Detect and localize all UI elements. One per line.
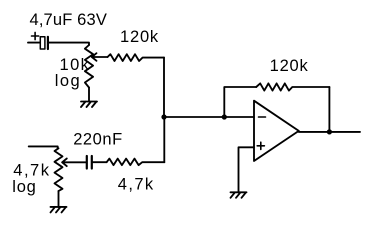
potentiometer P2 4,7k log (vertical zigzag) (55, 148, 63, 191)
plus polarity mark (32, 32, 39, 39)
ground (below P2) (51, 207, 67, 213)
potentiometer P1 10k log (vertical zigzag) (85, 45, 93, 88)
input lead (bottom channel) (29, 146, 58, 148)
wire non-inverting input to ground (239, 147, 255, 192)
ground (at U1 + input) (231, 192, 247, 198)
U1 non-inverting input mark + (257, 142, 264, 149)
resistor R2 4,7k (horizontal) (107, 159, 165, 166)
ground (below P1) (81, 102, 97, 108)
capacitor C1 (4,7uF 63V electrolytic, boxed + plate) (40, 37, 45, 49)
wire P2 bottom to ground (58, 191, 60, 207)
wire R1 to node A (163, 58, 165, 117)
resistor R3 120k (feedback) (256, 83, 329, 90)
wire P1 bottom to ground (88, 88, 90, 102)
P2 wiper arrow (62, 159, 86, 167)
wire R2 up to node A (163, 117, 165, 162)
svg-text:120k: 120k (270, 57, 309, 75)
op-amp U1 triangle (254, 101, 299, 161)
P1 wiper arrow (92, 53, 108, 61)
node C output junction dot (327, 129, 332, 134)
feedback wire down to output node C (328, 87, 330, 132)
input lead (top channel) (28, 42, 40, 44)
svg-text:4,7uF 63V: 4,7uF 63V (30, 11, 108, 29)
output wire (299, 131, 360, 133)
svg-text:4,7k: 4,7k (118, 176, 155, 194)
svg-text:220nF: 220nF (73, 131, 123, 149)
wire C2 to resistor R2 (93, 161, 107, 163)
svg-text:4,7k: 4,7k (13, 162, 50, 180)
node B junction dot (222, 114, 227, 119)
capacitor C2 220nF (86, 156, 88, 169)
svg-text:120k: 120k (120, 28, 159, 46)
wire C1 to pot P1 top (49, 43, 89, 45)
feedback wire up from node B (224, 87, 256, 117)
bus wire node A to op-amp inverting input (164, 116, 254, 118)
svg-text:log: log (12, 178, 36, 196)
svg-text:log: log (55, 72, 81, 90)
U1 inverting input mark - (259, 116, 266, 118)
resistor R1 120k (input, horizontal) (108, 54, 165, 61)
node A junction dot (161, 114, 166, 119)
